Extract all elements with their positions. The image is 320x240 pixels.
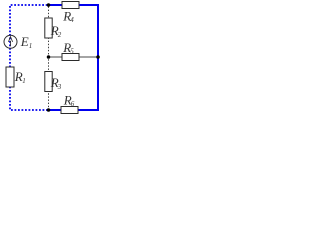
svg-text:4: 4 (70, 16, 74, 24)
svg-text:6: 6 (71, 100, 75, 108)
node A top (47, 3, 51, 7)
wire solid blue top rail (49, 5, 99, 110)
wire dashed blue left loop (10, 5, 48, 110)
svg-text:5: 5 (70, 48, 74, 56)
resistor R4 (62, 2, 79, 9)
resistor R6 (61, 107, 78, 114)
node B middle (47, 55, 51, 59)
svg-text:1: 1 (22, 77, 26, 85)
svg-text:E: E (20, 34, 29, 49)
svg-text:2: 2 (58, 31, 62, 39)
wire dashed dark middle rail (48, 7, 50, 111)
node D right (96, 55, 100, 59)
wire solid dark middle horizontal (49, 56, 99, 58)
svg-text:3: 3 (57, 83, 62, 91)
svg-text:1: 1 (29, 42, 33, 50)
node C bottom (47, 108, 51, 112)
source E1 arrow (8, 37, 12, 47)
resistor R3 (45, 72, 52, 92)
resistor R2 (45, 18, 52, 38)
resistor R1 (6, 67, 14, 87)
source E1 circle (4, 35, 17, 48)
resistor R5 (62, 54, 79, 61)
